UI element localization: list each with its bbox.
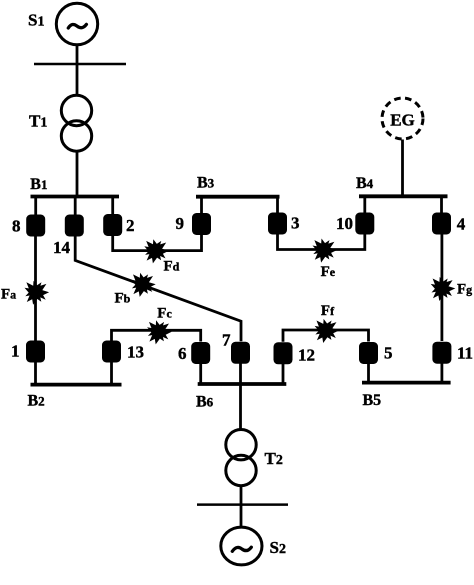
source S2 [221, 527, 262, 565]
fault Fe [313, 239, 338, 263]
svg-text:5: 5 [384, 343, 393, 362]
breaker 7 [231, 342, 250, 364]
svg-text:11: 11 [457, 343, 473, 362]
wire EG to B4 [401, 140, 404, 197]
stub B1 to breaker 2 [111, 197, 114, 215]
svg-text:B1: B1 [30, 176, 47, 193]
wire breaker 3 to breaker 10 (fault Fe) [278, 234, 365, 250]
breaker 11 [432, 342, 451, 364]
svg-text:Fc: Fc [157, 306, 172, 322]
wire breaker 4 to breaker 11 (fault Fg) [440, 234, 443, 341]
wire breaker 8 to breaker 1 (fault Fa) [34, 236, 37, 341]
svg-text:T1: T1 [29, 111, 47, 130]
breaker 6 [191, 342, 210, 364]
svg-text:B6: B6 [196, 394, 214, 411]
wire breaker 12 to B6 [282, 364, 285, 384]
svg-text:8: 8 [12, 217, 21, 236]
svg-text:14: 14 [53, 238, 71, 257]
breaker 3 [268, 213, 287, 235]
breaker 8 [26, 215, 45, 237]
breaker 13 [102, 341, 121, 363]
svg-text:1: 1 [11, 341, 20, 360]
stub B4 to breaker 4 [440, 196, 443, 213]
wire T1 to B1 [76, 152, 79, 196]
wire bar to T1 [76, 64, 79, 96]
bus B4 [359, 194, 448, 198]
fault Fg [431, 277, 456, 301]
wire breaker 7 down through B6 to T2 [239, 363, 242, 429]
fault Fa [25, 281, 50, 305]
wire breaker 5 to B5 [367, 364, 370, 383]
svg-text:B2: B2 [28, 393, 45, 410]
generator EG dashed circle [382, 98, 423, 139]
svg-text:S1: S1 [28, 11, 44, 30]
svg-text:Fe: Fe [321, 264, 336, 280]
bus B6 [198, 382, 287, 386]
stub B1 to breaker 14 [74, 197, 77, 216]
stub B1 to breaker 8 [34, 197, 37, 216]
svg-text:4: 4 [457, 215, 466, 234]
svg-text:7: 7 [222, 331, 231, 350]
bus B2 [31, 383, 122, 387]
wire breaker 1 to B2 [34, 362, 37, 385]
wire T2 to bar [240, 486, 243, 505]
bar below S1 [34, 63, 126, 66]
svg-text:9: 9 [176, 214, 185, 233]
svg-text:Fb: Fb [115, 291, 131, 307]
svg-text:3: 3 [291, 214, 300, 233]
wire breaker 11 to B5 [440, 363, 443, 383]
wire breaker 6 to B6 [199, 364, 202, 385]
wire S1 to bar [76, 45, 79, 64]
svg-text:B5: B5 [363, 392, 382, 409]
breaker 12 [274, 342, 293, 364]
transformer T1 [61, 95, 91, 125]
fault Fb [131, 273, 156, 297]
wire bar to S2 [240, 505, 243, 528]
bar above S2 [197, 503, 288, 506]
svg-text:10: 10 [336, 214, 353, 233]
svg-text:6: 6 [178, 344, 187, 363]
svg-text:S2: S2 [270, 538, 286, 557]
wire breaker 13 to B2 [110, 362, 113, 385]
svg-text:B3: B3 [197, 175, 215, 192]
svg-text:EG: EG [390, 111, 415, 130]
diagonal wire breaker 14 to breaker 7 (fault Fb) [75, 236, 241, 341]
svg-text:Ff: Ff [321, 303, 335, 319]
breaker 14 [65, 215, 84, 237]
svg-text:Fa: Fa [1, 287, 16, 303]
breaker 10 [355, 213, 374, 235]
fault Ff [315, 319, 340, 343]
breaker 2 [103, 214, 122, 236]
sine in S2 [232, 547, 251, 551]
transformer T2 [226, 430, 256, 460]
wire breaker 2 to breaker 9 (fault Fd) [113, 235, 202, 251]
bus B1 [31, 195, 120, 199]
svg-text:Fd: Fd [164, 259, 180, 275]
fault Fd [144, 239, 169, 263]
breaker 5 [359, 342, 378, 364]
breaker 9 [192, 213, 211, 235]
svg-text:B4: B4 [356, 175, 374, 192]
bus B5 [362, 381, 451, 385]
stub B3 to breaker 3 [276, 197, 279, 214]
svg-text:13: 13 [127, 343, 144, 362]
wire breaker 12 to breaker 5 (fault Ff) [283, 330, 369, 342]
source S1 [56, 3, 97, 44]
svg-text:2: 2 [126, 216, 135, 235]
wire breaker 13 to breaker 6 (fault Fc) [112, 330, 201, 341]
sine in S1 [68, 24, 86, 28]
bus B3 [196, 195, 280, 199]
svg-text:Fg: Fg [457, 282, 472, 298]
stub B3 to breaker 9 [200, 197, 203, 214]
svg-text:T2: T2 [265, 449, 283, 468]
svg-text:12: 12 [298, 346, 315, 365]
fault Fc [147, 320, 172, 344]
breaker 1 [26, 341, 45, 363]
breaker 4 [432, 213, 451, 235]
stub B4 to breaker 10 [363, 196, 366, 213]
